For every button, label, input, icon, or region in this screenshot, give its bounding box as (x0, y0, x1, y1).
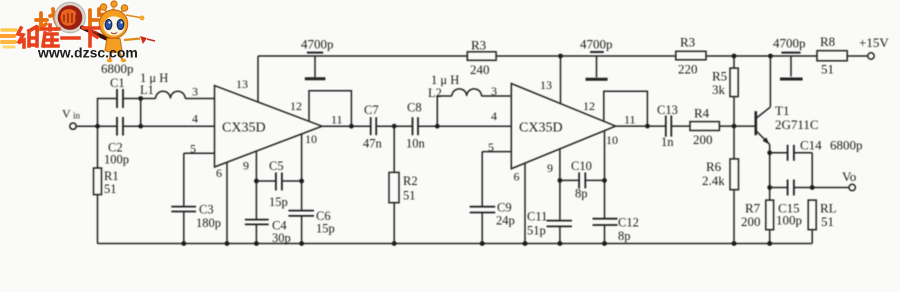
svg-text:3: 3 (491, 84, 497, 98)
top rail segment 3 (706, 55, 817, 57)
svg-text:Vo: Vo (842, 169, 856, 184)
wire vertical connector node B to line4 (140, 99, 142, 127)
wire amp1 pin10 (301, 134, 303, 211)
junction R2-rail (392, 241, 397, 246)
svg-text:T1: T1 (775, 103, 789, 118)
capacitor C13 (657, 103, 678, 149)
junction R6-rail (732, 241, 737, 246)
svg-text:9: 9 (547, 161, 553, 175)
svg-text:L1: L1 (140, 83, 154, 97)
junction C4-rail (254, 241, 259, 246)
feedback loop wire amp2 pin12 to pin11 (604, 91, 648, 126)
capacitor C2 (104, 117, 129, 167)
svg-text:100p: 100p (776, 213, 802, 228)
op-amp U2 CX35D triangle (511, 84, 615, 169)
junction C11-rail (558, 241, 563, 246)
svg-text:220: 220 (678, 62, 698, 77)
svg-text:240: 240 (470, 62, 490, 77)
svg-text:1n: 1n (661, 135, 674, 149)
junction R7-rail (767, 241, 772, 246)
wire emitter down (769, 145, 771, 201)
capacitor 4700p (first) (301, 37, 334, 79)
wire amp1 pin5 (184, 142, 215, 156)
svg-text:24p: 24p (496, 214, 515, 228)
capacitor C3 (171, 203, 221, 244)
svg-text:47n: 47n (363, 137, 383, 151)
capacitor 4700p (third) (773, 36, 806, 80)
svg-text:R8: R8 (820, 34, 835, 49)
svg-text:L2: L2 (428, 86, 442, 100)
capacitor C6 (288, 209, 334, 244)
svg-text:4700p: 4700p (580, 37, 613, 52)
svg-text:200: 200 (693, 132, 713, 147)
svg-text:C14: C14 (800, 138, 822, 153)
svg-text:15p: 15p (269, 195, 288, 209)
wire L1 to amp1 pin3 (185, 98, 214, 100)
svg-text:V: V (62, 107, 71, 121)
svg-text:4: 4 (192, 112, 198, 126)
wire amp2 pin10 (604, 131, 606, 219)
svg-text:CX35D: CX35D (222, 121, 266, 136)
op-amp U1 CX35D triangle (215, 86, 323, 167)
logo char zhao (找) (36, 9, 62, 30)
logo text weiku yixia (维库一下) (18, 25, 99, 47)
wire amp1 pin13 to top rail (257, 56, 259, 102)
node R2 top (392, 124, 397, 129)
svg-text:2.4k: 2.4k (702, 173, 725, 188)
inductor L1 (140, 71, 185, 99)
junction C9-rail (480, 241, 485, 246)
svg-text:C10: C10 (571, 159, 592, 173)
wire C8 to amp2 pin4 (418, 125, 511, 127)
svg-text:10: 10 (305, 132, 317, 146)
wire amp2 pin5 (482, 140, 511, 154)
svg-text:200: 200 (741, 214, 761, 229)
capacitor C9 (470, 201, 515, 244)
resistor R8 (51) (817, 34, 868, 77)
svg-text:12: 12 (290, 99, 302, 113)
wire pin5 down to C9 (481, 152, 483, 207)
svg-text:C8: C8 (407, 101, 422, 115)
svg-text:C3: C3 (199, 203, 214, 217)
svg-text:R1: R1 (104, 169, 119, 183)
svg-text:8p: 8p (618, 229, 631, 243)
node Vo junction (810, 185, 815, 190)
svg-text:4700p: 4700p (773, 36, 806, 51)
svg-text:10: 10 (606, 133, 618, 147)
logo magnifier (55, 2, 112, 41)
wire amp1 pin6 (216, 162, 227, 243)
bottom rail (98, 243, 813, 245)
svg-text:13: 13 (236, 77, 248, 91)
wire C1 to node B (123, 98, 156, 100)
junction C5 left (254, 179, 259, 184)
svg-text:6: 6 (514, 170, 520, 184)
logo speed lines (1, 30, 16, 47)
wire amp2 pin13 to top rail (560, 56, 562, 104)
power terminal +15V (859, 35, 889, 59)
svg-text:6: 6 (216, 166, 222, 180)
svg-text:11: 11 (331, 113, 343, 127)
svg-text:3: 3 (192, 85, 198, 99)
resistor R2 (389, 126, 418, 243)
resistor R4 (200) (671, 106, 756, 148)
junction C6-rail (299, 241, 304, 246)
svg-text:4: 4 (491, 109, 497, 123)
logo mascot (99, 1, 155, 62)
svg-text:100p: 100p (104, 153, 129, 167)
svg-text:180p: 180p (196, 216, 221, 230)
junction pin13b-rail (558, 54, 563, 59)
capacitor C15 (770, 180, 813, 228)
wire C14 right down (811, 153, 813, 188)
resistor R3 (220) (676, 35, 706, 77)
svg-text:30p: 30p (272, 231, 291, 245)
junction R5-rail (732, 54, 737, 59)
resistor R5 (3k) (712, 56, 738, 126)
capacitor C12 (593, 216, 639, 244)
junction C12-rail (602, 241, 607, 246)
svg-text:11: 11 (624, 113, 636, 127)
top rail segment 2 (496, 55, 676, 57)
capacitor C8 (406, 101, 426, 151)
top rail segment 1 (258, 55, 467, 57)
svg-text:6800p: 6800p (830, 138, 863, 153)
resistor R6 (2.4k) (702, 126, 739, 243)
svg-text:51: 51 (821, 214, 834, 229)
svg-text:R3: R3 (680, 35, 695, 50)
svg-text:4700p: 4700p (301, 37, 334, 52)
capacitor C14 (770, 138, 863, 161)
svg-text:+15V: +15V (859, 35, 889, 50)
feedback loop wire amp1 pin12 to pin11 (309, 91, 351, 127)
resistor R3 (240) (467, 38, 496, 78)
junction collector-rail (768, 54, 773, 59)
resistor R7 (200) (741, 200, 774, 243)
svg-text:9: 9 (243, 159, 249, 173)
capacitor C10 (560, 159, 605, 201)
svg-text:13: 13 (540, 78, 552, 92)
svg-text:6800p: 6800p (101, 61, 134, 76)
node B (C1/L1 junction) (138, 96, 143, 101)
svg-text:1 μ H: 1 μ H (431, 73, 459, 87)
wire C7 to C8 (376, 125, 412, 127)
junction C10 left (558, 178, 563, 183)
capacitor C1 (110, 76, 125, 108)
input terminal Vin (62, 107, 81, 130)
capacitor C7 (363, 103, 383, 151)
node pin11 junction (349, 124, 354, 129)
svg-text:12: 12 (583, 99, 595, 113)
node A (input junction) (95, 124, 100, 129)
node B2 on line4 (138, 124, 143, 129)
logo char pian (片) (90, 9, 107, 29)
svg-text:R3: R3 (471, 38, 486, 53)
inductor L2 (428, 73, 481, 100)
wire pin5 down to C3 (183, 153, 185, 206)
svg-text:8p: 8p (575, 187, 588, 201)
wire input to node A (76, 125, 116, 127)
svg-text:in: in (73, 111, 81, 121)
node pin11b junction (645, 124, 650, 129)
output terminal Vo (842, 169, 856, 191)
node L2 branch (435, 124, 440, 129)
capacitor C11 (527, 210, 572, 244)
wire amp1 output pin11 (322, 125, 371, 127)
svg-text:10n: 10n (406, 137, 426, 151)
svg-text:51: 51 (403, 189, 416, 203)
svg-text:51: 51 (104, 182, 117, 196)
junction pin6-rail (225, 241, 230, 246)
svg-text:C9: C9 (497, 201, 512, 215)
capacitor C4 (245, 219, 291, 246)
svg-text:C5: C5 (269, 159, 284, 173)
wire L2 branch up (437, 96, 452, 126)
wire to Vo (812, 187, 849, 189)
wire node A up to C1 branch (98, 99, 117, 127)
svg-text:51p: 51p (527, 224, 546, 238)
junction C5 right (299, 179, 304, 184)
junction C10 right (602, 178, 607, 183)
svg-text:R2: R2 (403, 174, 418, 188)
svg-text:3k: 3k (712, 82, 726, 97)
svg-text:C13: C13 (657, 103, 678, 117)
junction pin6b-rail (523, 241, 528, 246)
resistor RL (51) (808, 200, 836, 243)
wire C2 to amp1 pin4 (124, 125, 215, 127)
svg-text:5: 5 (190, 142, 196, 156)
wire amp2 pin9 (547, 149, 560, 221)
svg-text:5: 5 (488, 140, 494, 154)
svg-text:C7: C7 (364, 103, 379, 117)
wire collector to rail (769, 56, 771, 107)
wire amp1 pin9 (243, 151, 256, 220)
node base junction (732, 124, 737, 129)
svg-text:www.dzsc.com: www.dzsc.com (37, 45, 138, 61)
junction C3-rail (181, 241, 186, 246)
resistor R1 (94, 126, 119, 243)
wire L2 to amp2 pin3 (482, 95, 512, 97)
svg-text:51: 51 (821, 62, 834, 77)
svg-text:R4: R4 (694, 106, 710, 121)
watermark logo dzsc.com (1, 1, 155, 62)
svg-text:C11: C11 (527, 210, 547, 224)
wire amp2 output pin11 (616, 125, 666, 127)
svg-text:C1: C1 (110, 76, 125, 90)
logo magnifier handle (82, 28, 112, 42)
svg-text:R6: R6 (706, 159, 722, 174)
svg-text:2G711C: 2G711C (775, 117, 819, 132)
capacitor 4700p (second) (580, 37, 613, 80)
svg-text:CX35D: CX35D (519, 121, 563, 136)
transistor Q1 T1 2G711C (756, 103, 819, 145)
wire amp2 pin6 (514, 163, 526, 243)
svg-text:15p: 15p (316, 222, 335, 236)
node emitter C15 (767, 185, 772, 190)
svg-text:C12: C12 (618, 216, 639, 230)
node emitter C14 (767, 150, 772, 155)
capacitor C5 (256, 159, 301, 209)
